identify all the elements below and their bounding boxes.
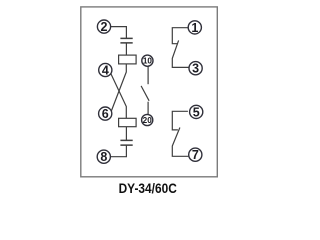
coil KV1 xyxy=(119,55,137,64)
wire coil2 to C2 xyxy=(125,127,127,140)
svg-text:5: 5 xyxy=(193,105,200,119)
terminal 2 xyxy=(97,20,110,33)
contact K2 blade xyxy=(172,128,188,157)
svg-text:2: 2 xyxy=(101,20,108,34)
capacitor C2 xyxy=(120,140,132,145)
svg-text:DY-34/60C: DY-34/60C xyxy=(119,180,177,196)
svg-text:6: 6 xyxy=(102,107,109,121)
terminal 8 xyxy=(97,150,110,163)
terminal 1 xyxy=(188,21,201,34)
svg-text:8: 8 xyxy=(100,150,107,164)
wire C1 to coil1 xyxy=(125,43,127,55)
terminal 4 xyxy=(99,63,112,76)
wire up to terminal20 xyxy=(147,102,149,115)
svg-text:10: 10 xyxy=(143,57,153,66)
svg-text:1: 1 xyxy=(191,21,198,35)
wire terminal4 to coil2 (cross diagonal) xyxy=(111,74,126,119)
svg-text:3: 3 xyxy=(192,62,199,76)
terminal 5 xyxy=(190,105,203,118)
terminal 20 xyxy=(142,114,153,125)
capacitor C1 xyxy=(120,38,132,43)
svg-text:4: 4 xyxy=(102,64,109,78)
wire terminal2 to C1 xyxy=(111,27,127,38)
terminal 6 xyxy=(99,107,112,120)
link blade 10-20 xyxy=(141,86,149,101)
terminal 3 xyxy=(189,62,202,75)
terminal 10 xyxy=(142,55,153,66)
svg-text:7: 7 xyxy=(192,148,199,162)
terminal 7 xyxy=(189,148,202,161)
relay case outline xyxy=(81,7,218,177)
contact K1 fixed side (terminal1) xyxy=(172,28,188,44)
contact K1 blade xyxy=(172,40,189,67)
wire coil1 to terminal6 (cross diagonal) xyxy=(111,64,126,112)
wire C2 to terminal8 xyxy=(111,145,127,156)
contact K2 fixed side (terminal5) xyxy=(172,111,188,130)
wire terminal10 down xyxy=(147,66,149,84)
coil KV2 xyxy=(119,118,137,126)
svg-text:20: 20 xyxy=(143,116,153,125)
